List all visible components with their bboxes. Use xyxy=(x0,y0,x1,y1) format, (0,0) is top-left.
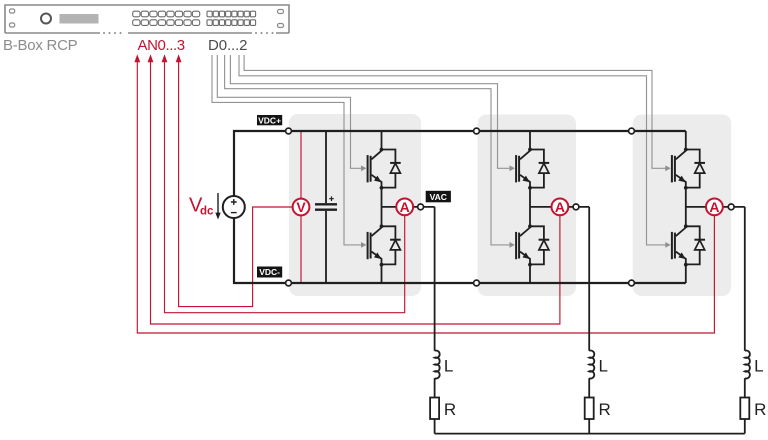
svg-text:VDC+: VDC+ xyxy=(258,115,281,125)
svg-text:VDC-: VDC- xyxy=(259,267,280,277)
svg-text:VAC: VAC xyxy=(430,192,447,202)
leg 2 phase output wire xyxy=(530,206,589,208)
leg 1 phase output wire xyxy=(382,206,435,208)
analog measurement wires xyxy=(137,61,714,333)
svg-text:R: R xyxy=(754,400,766,419)
digital gate wires D0..2 xyxy=(212,55,666,245)
panel analog connectors xyxy=(133,11,200,25)
svg-text:R: R xyxy=(444,400,456,419)
leg 1 midpoint wire xyxy=(381,188,383,227)
panel power button xyxy=(41,14,51,24)
IGBT leg1 high xyxy=(368,148,401,190)
half-bridge module 1 background xyxy=(289,114,421,296)
DC bus plus xyxy=(234,131,686,196)
node phase 2 xyxy=(573,204,579,210)
leg 2 midpoint wire xyxy=(529,188,531,227)
leg 3 emitter wire xyxy=(685,265,687,283)
IGBT leg3 high xyxy=(672,148,705,190)
gate wire leg2 low xyxy=(225,55,511,245)
svg-text:V: V xyxy=(296,199,306,215)
load 2 xyxy=(585,207,595,434)
wire A2 to AN1 xyxy=(151,61,560,324)
leg 3 phase output wire xyxy=(686,206,745,208)
label VDC- xyxy=(257,267,282,278)
panel digital connectors xyxy=(207,11,256,25)
analog arrowheads xyxy=(134,54,181,62)
load 1 xyxy=(430,207,440,434)
svg-text:D0...2: D0...2 xyxy=(208,37,247,54)
leg 3 midpoint wire xyxy=(685,188,687,227)
voltage source Vdc xyxy=(223,196,245,218)
panel slots left xyxy=(10,9,15,27)
svg-text:AN0...3: AN0...3 xyxy=(138,37,185,54)
voltmeter V xyxy=(293,199,310,216)
gate wire leg3 low xyxy=(239,55,666,245)
gate arrowheads xyxy=(361,165,671,247)
IGBT leg3 low xyxy=(672,224,705,266)
svg-text:A: A xyxy=(400,199,410,215)
svg-text:B-Box RCP: B-Box RCP xyxy=(3,37,78,54)
node VDC+ leg1 xyxy=(286,128,292,134)
ammeter A1 xyxy=(396,199,413,216)
panel break dots xyxy=(103,32,274,34)
DC bus minus xyxy=(234,218,686,283)
half-bridge module 3 background xyxy=(633,115,732,297)
leg 1 emitter wire xyxy=(381,265,383,283)
svg-text:A: A xyxy=(555,199,565,215)
gate wire leg1 low xyxy=(212,55,362,245)
node phase 1 xyxy=(418,204,424,210)
leg 1 collector wire xyxy=(381,131,383,150)
IGBT leg1 low xyxy=(368,224,401,266)
ammeter A2 xyxy=(552,199,569,216)
svg-text:A: A xyxy=(709,199,719,215)
load 3 xyxy=(740,207,750,434)
neutral bus xyxy=(435,433,745,435)
wire A1 to AN2 xyxy=(165,61,405,313)
node VDC+ leg2 xyxy=(474,128,480,134)
wire A3 to AN0 xyxy=(137,61,714,333)
leg 2 emitter wire xyxy=(529,265,531,283)
Vdc current direction arrow xyxy=(215,193,220,220)
panel display xyxy=(60,14,99,24)
svg-text:L: L xyxy=(444,357,453,376)
IGBT leg2 high xyxy=(516,148,549,190)
svg-text:dc: dc xyxy=(200,206,214,218)
leg 2 collector wire xyxy=(529,131,531,150)
panel slots right xyxy=(278,10,284,28)
B-Box RCP front panel xyxy=(5,5,289,33)
IGBT leg2 low xyxy=(516,224,549,266)
label VAC xyxy=(426,191,451,203)
gate wire leg2 high xyxy=(230,55,510,168)
node VDC- leg1 xyxy=(286,280,292,286)
gate wire leg3 high xyxy=(244,55,666,168)
node VDC+ leg3 xyxy=(629,128,635,134)
wire V meter to AN3 xyxy=(179,61,301,307)
ammeter A3 xyxy=(706,199,723,216)
node VDC- leg3 xyxy=(629,280,635,286)
node phase 3 xyxy=(728,204,734,210)
svg-text:L: L xyxy=(754,357,763,376)
gate wire leg1 high xyxy=(217,55,361,168)
svg-text:R: R xyxy=(599,400,611,419)
leg 3 collector wire xyxy=(685,131,687,150)
DC link capacitor xyxy=(315,131,337,283)
node VDC- leg2 xyxy=(474,280,480,286)
label VDC+ xyxy=(257,115,282,125)
half-bridge module 2 background xyxy=(478,115,577,297)
svg-text:L: L xyxy=(599,357,608,376)
wire Vdc sense vertical xyxy=(300,131,302,283)
